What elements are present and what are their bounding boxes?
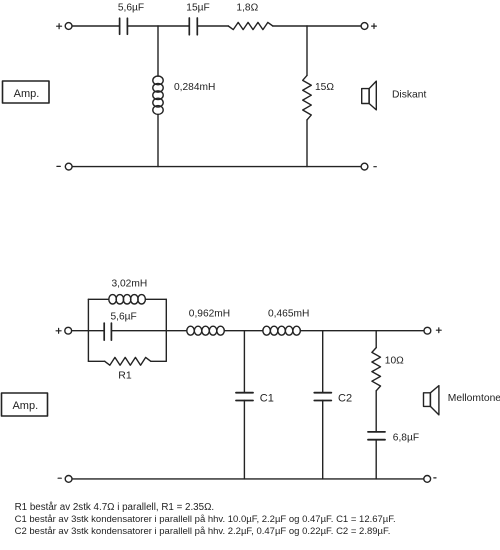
input terminal + (bottom circuit): [56, 327, 72, 334]
svg-text:Amp.: Amp.: [12, 400, 38, 412]
speaker icon Mellomtone: [424, 386, 439, 415]
wire input to parallel group: [72, 330, 88, 332]
svg-text:5,6µF: 5,6µF: [111, 311, 137, 322]
wire middle branch right: [111, 330, 166, 332]
input terminal + (top circuit): [57, 23, 72, 30]
inductor 0,962mH: [187, 308, 230, 335]
wire top rail segment 3: [197, 25, 228, 27]
wire C2 branch lower: [322, 401, 324, 479]
speaker icon Diskant: [362, 81, 377, 110]
resistor 10Ω: [372, 348, 404, 391]
svg-text:15Ω: 15Ω: [315, 82, 334, 93]
wire C2 branch upper: [322, 331, 324, 393]
svg-text:R1 består av 2stk 4.7Ω i paral: R1 består av 2stk 4.7Ω i parallell, R1 =…: [15, 502, 215, 513]
wire bottom rail (bottom circuit): [73, 478, 424, 480]
wire top edge left of coil: [88, 298, 108, 300]
svg-text:Mellomtone: Mellomtone: [448, 393, 500, 404]
wire top rail segment 1: [72, 25, 119, 27]
wire 10Ω branch upper: [375, 331, 377, 348]
svg-text:0,962mH: 0,962mH: [189, 308, 230, 319]
capacitor C1: [236, 392, 274, 404]
svg-text:1,8Ω: 1,8Ω: [236, 3, 258, 14]
inductor 0,284mH: [153, 76, 216, 114]
output terminal + (bottom circuit): [424, 327, 441, 334]
node B: wire from top rail down to shunt resistor: [306, 26, 308, 75]
wire top rail right section (bottom circuit): [300, 330, 423, 332]
svg-text:6,8µF: 6,8µF: [393, 432, 419, 443]
output terminal + (top circuit): [361, 23, 376, 30]
svg-text:C1: C1: [260, 392, 274, 404]
capacitor C2: [314, 392, 352, 404]
wire bottom edge right of resistor: [151, 360, 167, 362]
svg-text:10Ω: 10Ω: [385, 355, 404, 366]
wire parallel group to inductor 0,962mH: [166, 330, 187, 332]
input terminal - (bottom circuit): [58, 476, 72, 483]
resistor 15Ω: [303, 75, 335, 120]
capacitor 15µF: [186, 3, 209, 35]
wire middle branch left: [88, 330, 104, 332]
capacitor 5,6µF (top circuit): [118, 3, 144, 35]
wire top rail segment 2: [127, 25, 189, 27]
parallel group box right edge wire: [165, 299, 167, 361]
resistor R1: [105, 357, 151, 381]
capacitor 5,6µF (parallel group): [104, 311, 137, 340]
input terminal - (top circuit): [57, 163, 72, 170]
wire top edge right of coil: [145, 298, 166, 300]
inductor 3,02mH: [109, 279, 147, 304]
parallel group box left edge wire: [87, 299, 89, 361]
output terminal - (bottom circuit): [424, 476, 436, 483]
amplifier box Amp. (top circuit): [3, 81, 50, 103]
svg-text:5,6µF: 5,6µF: [118, 3, 144, 14]
capacitor 6,8µF: [368, 432, 419, 443]
output terminal - (top circuit): [361, 163, 376, 170]
svg-text:0,465mH: 0,465mH: [268, 308, 309, 319]
svg-text:C2 består av 3stk kondensatore: C2 består av 3stk kondensatorer i parall…: [15, 526, 391, 537]
svg-text:C1 består av 3stk kondensatore: C1 består av 3stk kondensatorer i parall…: [15, 514, 396, 525]
wire inductor to bottom rail: [157, 114, 159, 166]
svg-text:Amp.: Amp.: [14, 88, 40, 100]
wire 6,8µF to bottom rail: [375, 440, 377, 479]
amplifier box Amp. (bottom circuit): [2, 393, 48, 416]
wire bottom edge left of resistor: [88, 360, 104, 362]
svg-text:0,284mH: 0,284mH: [174, 82, 215, 93]
wire bottom rail (top circuit): [73, 166, 361, 168]
svg-text:C2: C2: [338, 392, 352, 404]
svg-text:3,02mH: 3,02mH: [112, 279, 148, 290]
svg-text:Diskant: Diskant: [392, 89, 426, 100]
wire resistor 15Ω to bottom rail: [306, 120, 308, 167]
inductor 0,465mH: [263, 308, 309, 335]
wire C1 branch upper: [243, 331, 245, 393]
svg-text:R1: R1: [118, 369, 132, 381]
wire between inductors (node C1 junction): [224, 330, 263, 332]
resistor 1,8Ω: [228, 3, 272, 30]
wire 10Ω to 6,8µF: [375, 391, 377, 432]
wire C1 branch lower: [243, 401, 245, 479]
wire top rail segment 4: [273, 25, 361, 27]
svg-text:15µF: 15µF: [186, 3, 209, 14]
node A: wire from top rail down to shunt inductor: [157, 26, 159, 76]
